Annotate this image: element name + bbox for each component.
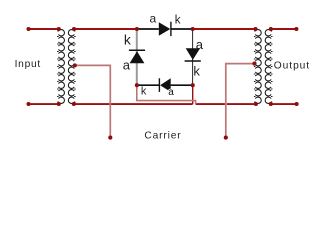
junction T1 primary top	[57, 27, 61, 31]
junction ring node BL	[135, 83, 139, 87]
wire input secondary top to ring TL	[74, 28, 137, 30]
svg-text:a: a	[150, 11, 157, 25]
wire bottom rail: input secondary bottom to below ring BR	[74, 103, 193, 105]
svg-text:a: a	[168, 87, 174, 98]
wire ring BL to output primary bottom (light, with step)	[137, 85, 196, 104]
wire input bottom stub	[29, 103, 59, 105]
junction T2 secondary top	[269, 27, 273, 31]
junction ring node TL	[135, 27, 139, 31]
wire ring TR to output primary top	[193, 28, 256, 30]
wire input center tap to carrier left (light)	[75, 65, 111, 137]
transformer T1 primary winding	[57, 29, 64, 104]
wire output secondary bottom stub	[271, 103, 297, 105]
ring right side wire	[192, 29, 194, 85]
junction T2 secondary bottom	[269, 102, 273, 106]
junction ring node TR	[191, 27, 195, 31]
wire output secondary top stub	[271, 28, 297, 30]
svg-text:Output: Output	[274, 60, 310, 71]
junction T2 primary top	[254, 27, 258, 31]
junction carrier terminal B	[224, 136, 228, 140]
ring bottom-right wire	[171, 84, 193, 86]
junction carrier terminal A	[108, 136, 112, 140]
junction input - terminal	[26, 102, 30, 106]
wire ring BR down to bottom rail	[192, 85, 194, 104]
diode D4 bottom (points left)	[159, 78, 170, 92]
svg-text:a: a	[123, 58, 131, 73]
junction T2 primary bottom	[254, 102, 258, 106]
junction T1 center tap	[73, 63, 77, 67]
junction T1 secondary bottom	[72, 102, 76, 106]
ring left side wire	[136, 29, 138, 85]
diode D2 left (points up)	[129, 50, 145, 63]
junction T1 secondary top	[72, 27, 76, 31]
diode D3 right (points down)	[185, 48, 201, 61]
wire output center tap to carrier right (light)	[225, 103, 227, 105]
wire input top stub	[29, 28, 59, 30]
junction ring node BR	[191, 83, 195, 87]
svg-text:k: k	[175, 14, 181, 26]
transformer T1 secondary winding	[68, 29, 75, 104]
junction output - terminal	[295, 102, 299, 106]
wire rail to output primary bottom	[196, 103, 256, 105]
ring top-left wire	[137, 28, 159, 30]
transformer T2 secondary winding	[265, 29, 272, 104]
svg-text:a: a	[196, 37, 204, 52]
junction output + terminal	[294, 27, 298, 31]
svg-text:k: k	[193, 63, 200, 78]
svg-text:k: k	[141, 86, 147, 98]
svg-text:k: k	[124, 33, 131, 48]
ring top-right wire	[171, 28, 193, 30]
ring bottom-left wire	[137, 84, 160, 86]
transformer T2 primary winding	[254, 29, 261, 104]
junction T1 primary bottom	[57, 102, 61, 106]
svg-text:Input: Input	[15, 59, 41, 70]
junction input + terminal	[26, 27, 30, 31]
junction T2 center tap	[252, 62, 256, 66]
svg-text:Carrier: Carrier	[144, 131, 181, 142]
diode D1 top (points right)	[159, 22, 171, 36]
